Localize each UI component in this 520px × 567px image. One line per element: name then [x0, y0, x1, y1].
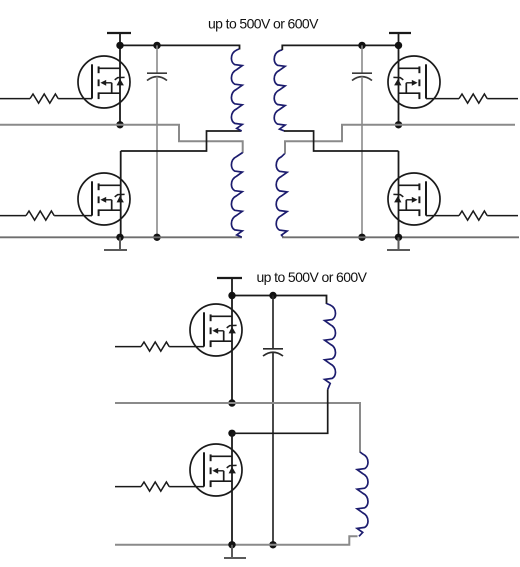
resistor R1 [0, 98, 30, 100]
transistor Q4 [388, 173, 440, 225]
wire leg lower bottom circuit [231, 433, 233, 545]
supply bar bottom circuit [217, 277, 242, 279]
resistor R3 [426, 98, 459, 100]
winding L1 (top left, tails right) [231, 49, 242, 131]
node dot right supply [395, 42, 402, 49]
resistor R5 [115, 346, 141, 348]
resistor R2 [0, 215, 26, 217]
node dot Q6 source [228, 541, 235, 548]
wire gray left midpoint [0, 125, 243, 153]
ground bottom circuit [224, 545, 246, 558]
svg-text:up to 500V or 600V: up to 500V or 600V [208, 16, 319, 32]
wire leg upper bottom circuit [231, 278, 233, 403]
wire gray midpoint bottom circuit [115, 403, 360, 453]
wire black Q2 drain to winding [121, 131, 242, 151]
inductor L6 (tails left) [357, 452, 368, 536]
ground left [104, 237, 127, 250]
wire bottom rail right [282, 236, 519, 238]
node dot Q2 source [116, 234, 123, 241]
wire top rail left [120, 45, 240, 49]
node dot Q6 drain [228, 430, 235, 437]
node dot Q4 source [395, 234, 402, 241]
node dot supply bottom [228, 292, 235, 299]
wire black Q6 drain to L5 [232, 390, 328, 434]
wire right leg lower [398, 151, 400, 237]
capacitor C1 [147, 45, 167, 237]
node dot C1 top [153, 42, 160, 49]
supply bar right [389, 32, 411, 34]
node B: right bridge mid [395, 121, 402, 128]
resistor R4 [426, 215, 459, 217]
wire bottom rail left [0, 236, 242, 238]
node dot C2 bottom [358, 234, 365, 241]
wire black Q4 drain to winding [284, 131, 399, 151]
node dot C1 bottom [153, 234, 160, 241]
supply bar left [107, 32, 131, 34]
node A: left bridge mid [116, 121, 123, 128]
wire top rail bottom circuit [232, 296, 327, 305]
transistor Q3 [388, 56, 440, 108]
winding L4 (bottom right, tails right) [276, 153, 287, 237]
transistor Q1 [78, 56, 130, 108]
transistor Q6 [190, 444, 242, 496]
node dot C3 top [269, 292, 276, 299]
transistor Q5 [190, 304, 242, 356]
node dot C2 top [358, 42, 365, 49]
wire left leg lower [120, 151, 122, 237]
winding L2 (bottom left, tails right) [231, 153, 242, 238]
inductor L5 (tails left) [325, 304, 336, 390]
wire right leg upper [398, 33, 400, 125]
wire gray right midpoint [285, 125, 515, 154]
capacitor C3 [263, 296, 283, 545]
node dot Q5 source [228, 399, 235, 406]
svg-text:up to 500V or 600V: up to 500V or 600V [257, 269, 368, 285]
capacitor C2 [352, 45, 372, 237]
ground right [387, 237, 410, 250]
node dot left supply [116, 42, 123, 49]
wire top rail right [282, 45, 398, 50]
resistor R6 [115, 486, 141, 488]
winding L3 (top right, tails right) [274, 50, 285, 131]
node dot C3 bottom [269, 541, 276, 548]
wire bottom rail bottom circuit [115, 536, 358, 545]
transistor Q2 [78, 173, 130, 225]
wire left leg upper (drain rail to node) [119, 33, 121, 125]
